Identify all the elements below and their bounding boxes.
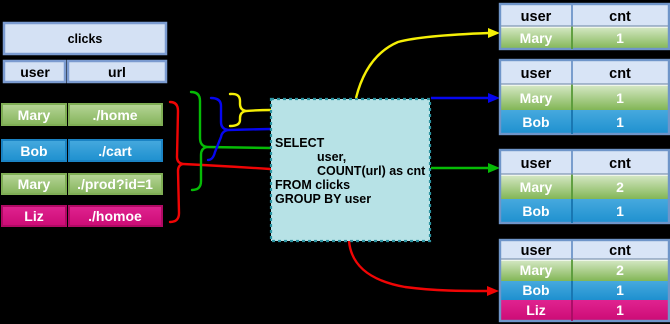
green brace rows 1-3 (191, 92, 270, 190)
row 1 Mary ./home (green) (2, 104, 162, 125)
clicks header cell user (4, 61, 65, 82)
svg-text:2: 2 (616, 179, 624, 195)
blue arrow to result table 2 (431, 93, 500, 103)
svg-text:./homoe: ./homoe (88, 208, 142, 224)
svg-text:user: user (521, 156, 552, 172)
result table 4 (Mary 2, Bob 1, Liz 1) (500, 240, 669, 321)
svg-text:user: user (521, 66, 552, 82)
svg-text:Liz: Liz (526, 302, 545, 318)
yellow brace row 1 (230, 94, 271, 126)
svg-text:1: 1 (616, 114, 624, 130)
blue brace rows 1-2 (208, 98, 270, 160)
svg-text:cnt: cnt (609, 9, 631, 25)
row 3 Mary ./prod?id=1 (green) (2, 174, 162, 194)
svg-text:./prod?id=1: ./prod?id=1 (77, 176, 153, 192)
yellow arrow to result table 1 (356, 28, 500, 98)
svg-text:url: url (108, 64, 126, 80)
row 4 Liz ./homoe (magenta) (2, 206, 162, 226)
svg-text:user: user (521, 9, 552, 25)
svg-text:Mary: Mary (520, 179, 553, 195)
result table 1 (Mary 1) (500, 4, 669, 49)
svg-text:./home: ./home (92, 107, 137, 123)
svg-text:Mary: Mary (520, 30, 553, 46)
red arrow to result table 4 (349, 241, 499, 296)
svg-text:Mary: Mary (18, 107, 51, 123)
svg-text:Mary: Mary (18, 176, 51, 192)
svg-text:Liz: Liz (24, 208, 43, 224)
svg-text:Bob: Bob (20, 143, 47, 159)
svg-text:1: 1 (616, 203, 624, 219)
result table 2 (Mary 1, Bob 1) (500, 60, 669, 134)
svg-text:1: 1 (616, 282, 624, 298)
svg-text:1: 1 (616, 90, 624, 106)
red brace rows 1-4 (170, 102, 270, 222)
svg-text:Bob: Bob (522, 282, 549, 298)
svg-text:1: 1 (616, 302, 624, 318)
svg-text:user,: user, (317, 150, 346, 164)
svg-text:user: user (20, 64, 50, 80)
svg-text:SELECT: SELECT (275, 136, 325, 150)
svg-text:./cart: ./cart (98, 143, 132, 159)
row 2 Bob ./cart (blue) (2, 140, 162, 161)
svg-text:user: user (521, 243, 552, 259)
svg-text:cnt: cnt (609, 156, 631, 172)
svg-text:COUNT(url) as cnt: COUNT(url) as cnt (317, 164, 426, 178)
svg-text:2: 2 (616, 262, 624, 278)
svg-text:Bob: Bob (522, 203, 549, 219)
clicks table title box (4, 23, 166, 54)
svg-text:cnt: cnt (609, 66, 631, 82)
result table 3 (Mary 2, Bob 1) (500, 150, 669, 223)
svg-text:1: 1 (616, 30, 624, 46)
svg-text:cnt: cnt (609, 243, 631, 259)
svg-text:clicks: clicks (68, 32, 103, 46)
svg-text:Mary: Mary (520, 90, 553, 106)
green arrow to result table 3 (431, 163, 500, 173)
svg-text:FROM clicks: FROM clicks (275, 178, 350, 192)
svg-text:Mary: Mary (520, 262, 553, 278)
SQL query box (271, 99, 430, 241)
clicks header cell url (68, 61, 166, 82)
svg-text:Bob: Bob (522, 114, 549, 130)
svg-text:GROUP BY user: GROUP BY user (275, 192, 371, 206)
